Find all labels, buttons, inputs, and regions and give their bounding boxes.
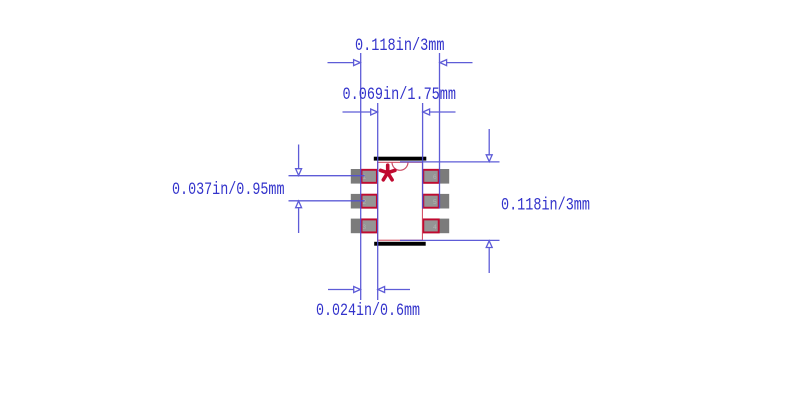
svg-text:4: 4 <box>433 224 437 231</box>
svg-text:5: 5 <box>433 199 437 206</box>
extension line V2 x=377.7 <box>377 103 379 300</box>
pad 5 (right middle) <box>423 194 450 209</box>
svg-text:0.037in/0.95mm: 0.037in/0.95mm <box>172 180 285 200</box>
pad 1 (left top) <box>351 169 378 184</box>
dimension graphics (blue) <box>289 53 500 300</box>
bottom dim arrow left <box>328 289 354 291</box>
left dim vertical lower with arrow <box>298 208 300 233</box>
pin-1 indicator arc <box>392 162 408 170</box>
body outline <box>378 162 423 240</box>
lead box pin 5 <box>423 195 438 208</box>
svg-text:0.024in/0.6mm: 0.024in/0.6mm <box>316 301 420 321</box>
mid dim arrow right <box>429 111 455 113</box>
lead box pin 2 <box>362 195 377 208</box>
top dim arrow left <box>328 62 354 64</box>
right dim vertical upper with arrow <box>488 129 490 155</box>
pad 4 (right bottom) <box>423 219 450 234</box>
left dim extension line upper <box>289 175 365 177</box>
bottom silk bar <box>374 242 426 246</box>
top silk bar <box>374 157 427 161</box>
bottom dim arrow right <box>384 289 410 291</box>
extension line V4 x=439.5 <box>439 53 441 209</box>
right dim extension line lower <box>400 239 500 241</box>
lead box pin 3 <box>362 219 377 232</box>
pad 2 (left middle) <box>351 194 378 209</box>
lead box pin 1 <box>362 170 377 183</box>
pad 6 (right top) <box>423 169 450 184</box>
svg-text:0.118in/3mm: 0.118in/3mm <box>355 36 445 56</box>
lead box pin 6 <box>423 170 438 183</box>
svg-text:3: 3 <box>362 224 366 231</box>
pin-1 asterisk <box>381 165 395 180</box>
svg-text:6: 6 <box>433 174 437 181</box>
left dim vertical upper with arrow <box>298 145 300 169</box>
svg-text:0.069in/1.75mm: 0.069in/1.75mm <box>343 85 457 105</box>
top dim arrow right <box>446 62 472 64</box>
right dim extension line upper <box>400 161 500 163</box>
extension line V3 x=422.6 <box>422 103 424 209</box>
pad 3 (left bottom) <box>351 219 378 234</box>
svg-text:0.118in/3mm: 0.118in/3mm <box>501 196 590 216</box>
left dim extension line lower <box>289 200 365 202</box>
mid dim arrow left <box>343 111 371 113</box>
lead box pin 4 <box>423 219 438 232</box>
extension line V1 x=360.7 <box>360 53 362 300</box>
right dim vertical lower with arrow <box>488 248 490 274</box>
